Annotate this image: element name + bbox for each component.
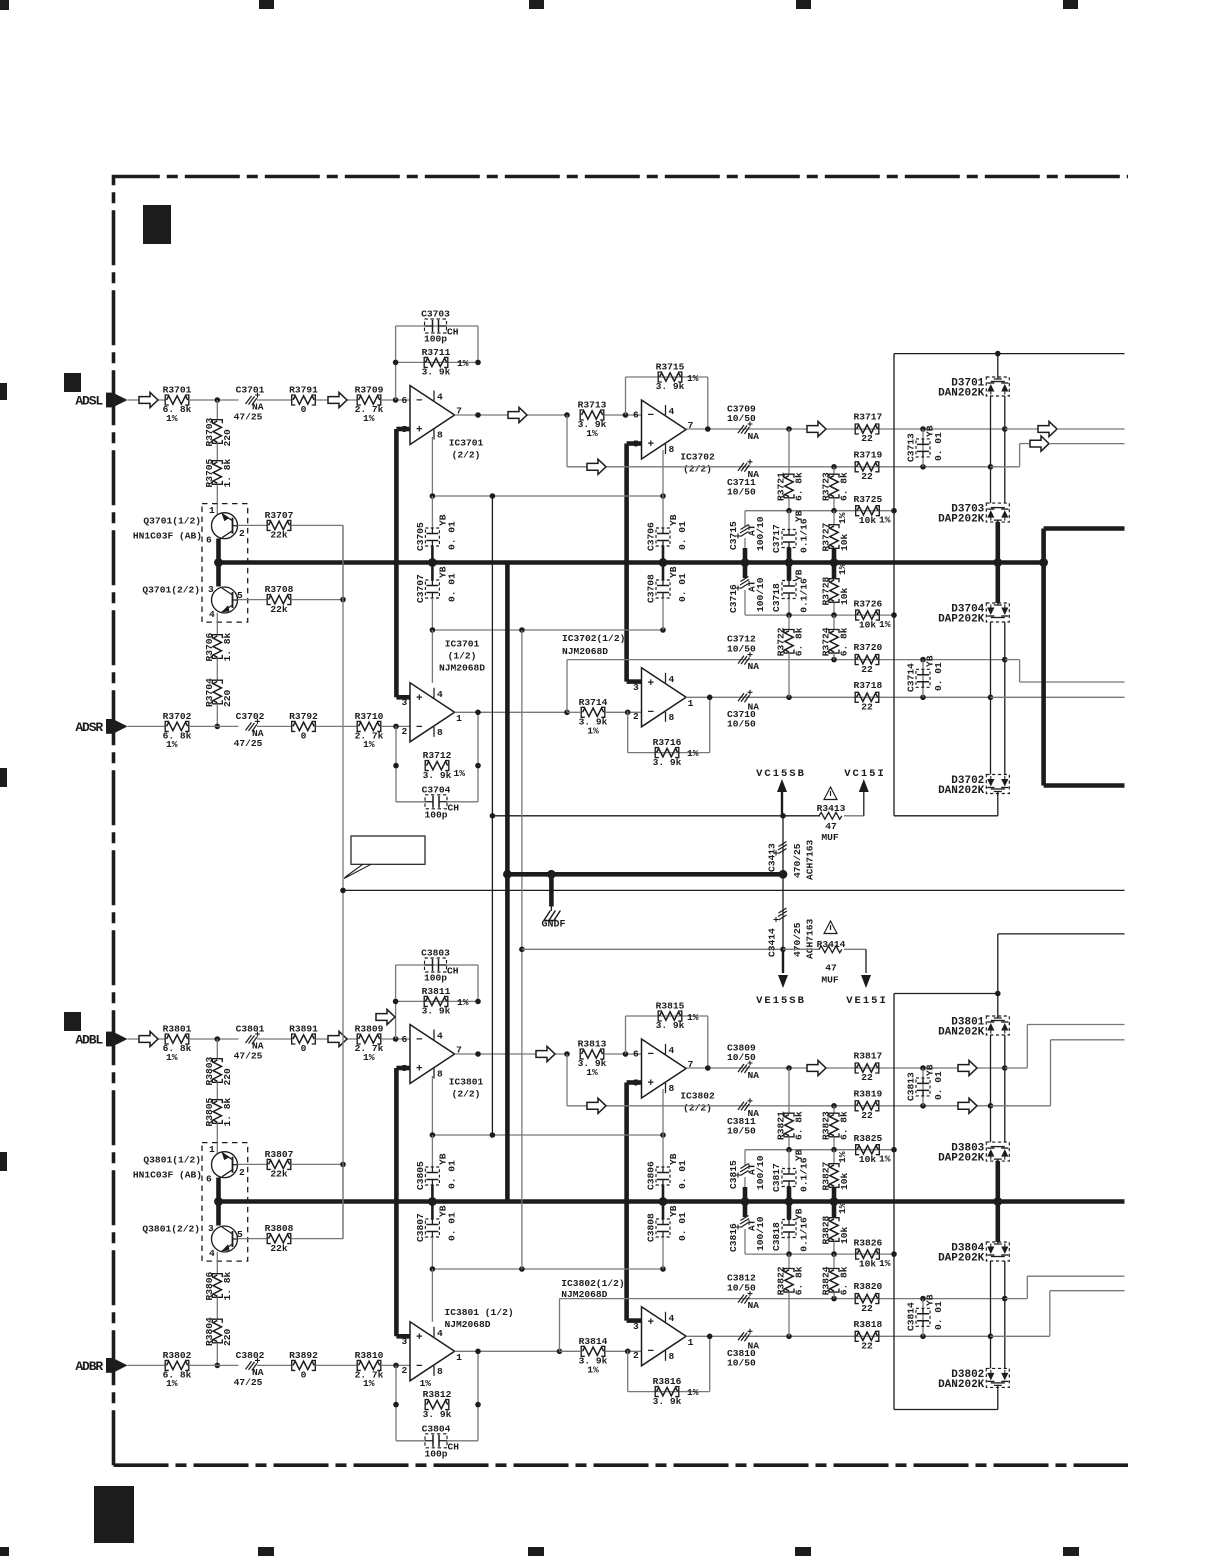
wire	[216, 1083, 218, 1100]
signal arrow row2 output (bottom)	[958, 1098, 977, 1113]
net VC15I arrow	[844, 815, 864, 817]
registration mark bottom 1	[0, 1547, 9, 1556]
svg-text:R3718: R3718	[854, 680, 883, 691]
wire corner to vertical rail	[342, 525, 344, 599]
svg-text:6. 8k: 6. 8k	[839, 627, 850, 656]
svg-text:C3818: C3818	[771, 1222, 782, 1251]
svg-text:1%: 1%	[587, 1364, 599, 1375]
svg-text:C3702: C3702	[236, 711, 265, 722]
svg-text:1%: 1%	[879, 1258, 891, 1269]
node R3708 rail	[340, 597, 346, 603]
thick vertical x=507.4 between buses	[505, 563, 510, 1202]
capacitor C3817 0.1/16 YB	[788, 1150, 790, 1169]
capacitor C3714 0.01 YB	[922, 660, 924, 698]
svg-text:MUF: MUF	[821, 975, 839, 986]
svg-text:3: 3	[208, 584, 214, 595]
svg-text:47/25: 47/25	[234, 1377, 263, 1388]
svg-text:4: 4	[669, 1313, 675, 1324]
wire to pin6	[604, 1053, 642, 1055]
resistor R3806 1.8k vertical	[213, 1275, 221, 1296]
svg-text:470/25: 470/25	[792, 843, 803, 878]
svg-text:C3808: C3808	[646, 1213, 657, 1242]
signal arrow	[508, 407, 527, 422]
svg-text:1. 8k: 1. 8k	[222, 632, 233, 661]
svg-text:R3727: R3727	[821, 522, 832, 551]
svg-text:3. 9k: 3. 9k	[653, 757, 682, 768]
svg-text:IC3801 (1/2): IC3801 (1/2)	[445, 1307, 514, 1318]
resistor R3704 220 vertical	[213, 682, 221, 703]
wire row1 output jog up to edge (bottom)	[1005, 1067, 1028, 1069]
svg-text:+: +	[648, 1317, 655, 1329]
svg-text:10/50: 10/50	[727, 486, 756, 497]
svg-text:2: 2	[239, 1167, 245, 1178]
svg-text:HN1C03F (AB): HN1C03F (AB)	[133, 1170, 202, 1181]
wire diode col lower	[990, 1261, 992, 1368]
svg-text:4: 4	[437, 689, 443, 700]
svg-text:R3728: R3728	[821, 576, 832, 605]
wire pin8 rail upper	[431, 1076, 433, 1135]
svg-text:47/25: 47/25	[234, 738, 263, 749]
resistor R3823 6.8k vertical	[833, 1106, 835, 1113]
svg-text:10k: 10k	[839, 587, 850, 605]
wire row3	[566, 660, 568, 713]
wire row3	[559, 1299, 561, 1352]
svg-text:47/25: 47/25	[234, 412, 263, 423]
wire diode block left rail	[893, 354, 895, 816]
svg-text:10k: 10k	[839, 533, 850, 551]
svg-text:8: 8	[437, 430, 443, 441]
svg-text:R3819: R3819	[854, 1088, 883, 1099]
svg-text:C3807: C3807	[415, 1213, 426, 1242]
svg-text:1%: 1%	[687, 1012, 699, 1023]
svg-text:3: 3	[633, 682, 639, 693]
op-amp IC3701(2/2)	[410, 386, 455, 445]
resistor R3808 22k	[238, 1238, 268, 1240]
wire IC3801(2/2) output	[455, 1053, 567, 1055]
resistor R3824 6.8k vertical	[833, 1254, 835, 1268]
svg-text:6: 6	[402, 395, 408, 406]
thick wire into IC3702(2/2) pin5	[627, 441, 642, 446]
svg-text:MUF: MUF	[821, 832, 839, 843]
svg-text:+: +	[416, 693, 423, 705]
svg-text:R3808: R3808	[265, 1223, 294, 1234]
svg-text:−: −	[648, 410, 655, 422]
registration mark top 2	[259, 0, 274, 9]
svg-text:1%: 1%	[166, 413, 178, 424]
node output branch	[564, 412, 570, 418]
svg-text:NA: NA	[748, 661, 760, 672]
resistor R3703 220 vertical	[216, 400, 218, 420]
svg-text:0.1/16: 0.1/16	[799, 518, 810, 553]
node output branch	[564, 1051, 570, 1057]
capacitor C3811 10/50 NA on row2	[738, 1102, 749, 1111]
svg-text:R3715: R3715	[656, 362, 685, 373]
wire VE15 row to R3414	[783, 948, 820, 950]
wire pin8 rail lower	[432, 629, 663, 631]
svg-text:6: 6	[206, 535, 212, 546]
svg-text:0. 01: 0. 01	[933, 1071, 944, 1100]
registration mark left edge ADSL	[64, 373, 81, 392]
svg-text:IC3802: IC3802	[680, 1091, 715, 1102]
svg-text:(2/2): (2/2)	[452, 450, 481, 461]
svg-text:8: 8	[669, 444, 675, 455]
registration mark top 3	[529, 0, 544, 9]
svg-text:NA: NA	[748, 1070, 760, 1081]
svg-text:1%: 1%	[837, 563, 848, 575]
svg-text:1%: 1%	[837, 1202, 848, 1214]
registration mark left edge x0 y1155	[0, 1152, 7, 1171]
registration mark bottom 2	[258, 1547, 274, 1556]
registration mark left edge x0 y385	[0, 383, 7, 400]
wire to pin6	[604, 414, 642, 416]
node IC3701(2/2) pin6	[393, 397, 399, 403]
feedback network IC3801(2/2)	[395, 965, 397, 1039]
capacitor C3706 0.01 YB	[662, 450, 664, 496]
svg-text:100p: 100p	[424, 973, 447, 984]
svg-text:R3791: R3791	[289, 385, 318, 396]
svg-text:220: 220	[222, 1068, 233, 1086]
svg-text:0. 01: 0. 01	[447, 1160, 458, 1189]
svg-text:R3712: R3712	[423, 750, 452, 761]
thick ground bus GNDF y=874.3	[507, 872, 783, 877]
svg-text:1%: 1%	[587, 725, 599, 736]
svg-text:R3720: R3720	[854, 642, 883, 653]
svg-text:+: +	[648, 678, 655, 690]
thick wire Q emitter to bus	[216, 539, 221, 587]
svg-text:100/10: 100/10	[755, 1155, 766, 1190]
svg-text:R3710: R3710	[355, 711, 384, 722]
diode D3803 DAP202K	[986, 1142, 1009, 1161]
svg-text:+: +	[648, 1078, 655, 1090]
svg-text:R3820: R3820	[854, 1281, 883, 1292]
svg-text:0. 01: 0. 01	[933, 662, 944, 691]
svg-text:R3824: R3824	[821, 1266, 832, 1295]
svg-text:0: 0	[301, 1043, 307, 1054]
node IC3802(1/2) pin2	[625, 1349, 631, 1355]
capacitor C3809 10/50 NA on row1	[738, 1064, 749, 1073]
wire IC3801(1/2) output	[455, 1350, 560, 1352]
capacitor C3808 0.01 YB	[662, 1202, 665, 1220]
node row4 R-x22	[786, 1334, 792, 1340]
svg-text:6: 6	[633, 1049, 639, 1060]
svg-text:1: 1	[456, 1352, 462, 1363]
svg-text:0. 01: 0. 01	[447, 573, 458, 602]
svg-text:C3713: C3713	[906, 433, 917, 462]
svg-text:10/50: 10/50	[727, 1283, 756, 1294]
resistor R3721 6.8k vertical	[788, 429, 790, 474]
wire ADBR row	[128, 1364, 166, 1366]
svg-text:VC15SB: VC15SB	[756, 768, 806, 780]
op-amp IC3702(1/2)	[642, 668, 687, 727]
svg-text:10/50: 10/50	[727, 644, 756, 655]
svg-text:R3826: R3826	[854, 1238, 883, 1249]
wire corner to vertical rail	[342, 1164, 344, 1238]
svg-text:470/25: 470/25	[792, 922, 803, 957]
op-amp IC3802(1/2)	[642, 1307, 687, 1366]
svg-text:R3717: R3717	[854, 412, 883, 423]
wire Q2 base chain down	[216, 613, 218, 635]
node row4 R-x22	[786, 695, 792, 701]
signal arrow	[328, 1031, 347, 1046]
wire vertical x=343 rail	[342, 525, 344, 1238]
svg-text:ADBL: ADBL	[75, 1033, 103, 1048]
svg-text:C3806: C3806	[646, 1161, 657, 1190]
svg-text:4: 4	[437, 392, 443, 403]
svg-text:+: +	[648, 439, 655, 451]
svg-text:R3811: R3811	[422, 986, 451, 997]
svg-text:DAP202K: DAP202K	[938, 1153, 985, 1165]
svg-text:10k: 10k	[859, 619, 877, 630]
registration mark top 4	[796, 0, 811, 9]
svg-text:1%: 1%	[879, 619, 891, 630]
svg-text:1%: 1%	[363, 1378, 375, 1389]
node x343 y890	[340, 888, 346, 894]
net VC15SB arrow	[777, 779, 787, 792]
svg-text:10/50: 10/50	[727, 1125, 756, 1136]
thick wire into IC3701(2/2) pin5	[396, 427, 410, 432]
svg-text:CH: CH	[447, 327, 459, 338]
svg-text:IC3702: IC3702	[680, 452, 715, 463]
capacitor C3818 0.1/16 YB	[787, 1202, 792, 1220]
node row1 diode col	[1002, 426, 1008, 432]
svg-text:1%: 1%	[586, 1067, 598, 1078]
node IC3801(2/2) pin6	[393, 1036, 399, 1042]
svg-text:3. 9k: 3. 9k	[422, 1006, 451, 1017]
svg-text:22: 22	[861, 702, 873, 713]
resistor R3728 10k vertical	[832, 563, 837, 579]
svg-text:VE15SB: VE15SB	[756, 995, 806, 1007]
svg-text:CH: CH	[447, 966, 459, 977]
svg-text:1%: 1%	[586, 428, 598, 439]
svg-text:R3707: R3707	[265, 510, 294, 521]
node row3 R-x24	[831, 657, 837, 663]
svg-text:C3813: C3813	[906, 1072, 917, 1101]
svg-text:1%: 1%	[457, 997, 469, 1008]
svg-text:1%: 1%	[363, 1052, 375, 1063]
svg-text:6. 8k: 6. 8k	[794, 1266, 805, 1295]
capacitor C3705 0.01 YB	[431, 496, 433, 528]
svg-text:220: 220	[222, 429, 233, 447]
thick wire into IC3702(1/2) pin3	[627, 679, 642, 684]
svg-text:C3414: C3414	[767, 928, 778, 957]
capacitor C3806 0.01 YB	[662, 1089, 664, 1135]
wire	[257, 1038, 292, 1040]
resistor R3706 1.8k vertical	[213, 636, 221, 657]
svg-text:R3726: R3726	[854, 599, 883, 610]
wire ADSL row	[128, 399, 166, 401]
wire row2 from output branch	[566, 415, 568, 467]
signal arrow	[328, 392, 347, 407]
thick wire bus to D3804	[995, 1202, 1000, 1243]
wire D3702 bottom rail	[997, 794, 999, 816]
svg-text:R3813: R3813	[578, 1039, 607, 1050]
svg-text:DAN202K: DAN202K	[938, 785, 985, 797]
svg-text:3: 3	[633, 1321, 639, 1332]
svg-text:DAP202K: DAP202K	[938, 514, 985, 526]
svg-text:C3802: C3802	[236, 1350, 265, 1361]
thick wire into IC3802(1/2) pin3	[627, 1318, 642, 1323]
wire VE15 row y=949.3	[522, 948, 783, 950]
svg-text:100/10: 100/10	[755, 516, 766, 551]
registration mark bottom 5	[1063, 1547, 1079, 1556]
svg-text:R3706: R3706	[204, 632, 215, 661]
diode D3701 DAN202K	[986, 377, 1009, 396]
wire IC3701(2/2) output	[455, 414, 567, 416]
wire junction row lower	[745, 614, 894, 616]
svg-text:R3711: R3711	[422, 347, 451, 358]
svg-text:Q3701(1/2): Q3701(1/2)	[143, 516, 201, 527]
svg-text:Q3801(1/2): Q3801(1/2)	[143, 1155, 201, 1166]
svg-text:3. 9k: 3. 9k	[422, 367, 451, 378]
signal arrow into feedback rail (bottom half only)	[376, 1009, 395, 1024]
node row1 C-col	[920, 426, 926, 432]
svg-text:−: −	[416, 1035, 423, 1047]
svg-text:10k: 10k	[859, 515, 877, 526]
wire D3701 top feed	[997, 354, 999, 377]
resistor R3727 10k vertical	[833, 511, 835, 525]
svg-text:+: +	[416, 1064, 423, 1076]
capacitor C3704 100p CH	[396, 801, 425, 803]
signal arrow after ADSL	[139, 392, 158, 407]
svg-text:−: −	[416, 722, 423, 734]
registration mark bottom 4	[795, 1547, 811, 1556]
signal arrow after ADBL	[139, 1031, 158, 1046]
svg-text:NA: NA	[748, 1300, 760, 1311]
svg-text:8: 8	[437, 727, 443, 738]
svg-text:NJM2068D: NJM2068D	[562, 646, 608, 657]
wire	[316, 399, 358, 401]
wire to op-amp pin2	[381, 725, 410, 727]
svg-text:R3828: R3828	[821, 1215, 832, 1244]
wire diode col lower	[990, 622, 992, 775]
svg-text:C3708: C3708	[646, 574, 657, 603]
node feedback left	[393, 360, 399, 366]
svg-text:C3701: C3701	[236, 385, 265, 396]
ground symbol GNDF	[549, 874, 554, 906]
wire row2 from output branch	[566, 1054, 568, 1106]
svg-text:6. 8k: 6. 8k	[839, 1111, 850, 1140]
capacitor C3707 0.01 YB	[431, 563, 434, 581]
wire row1 IC3702(2/2) output	[686, 428, 1005, 430]
svg-text:CH: CH	[448, 802, 460, 813]
wire IC3802(1/2) output row4	[686, 1335, 990, 1337]
svg-text:C3803: C3803	[421, 948, 450, 959]
svg-text:R3815: R3815	[656, 1001, 685, 1012]
svg-text:100p: 100p	[424, 809, 447, 820]
svg-text:100p: 100p	[424, 1448, 447, 1459]
svg-text:0: 0	[301, 404, 307, 415]
capacitor C3814 0.01 YB	[922, 1299, 924, 1337]
svg-text:0. 01: 0. 01	[677, 521, 688, 550]
svg-text:4: 4	[669, 406, 675, 417]
svg-text:3. 9k: 3. 9k	[656, 1020, 685, 1031]
wire D3801 top feed	[997, 934, 999, 1017]
wire rail to IC3701(1/2) pin4	[431, 630, 433, 683]
node VC15 row	[780, 813, 786, 819]
svg-text:22k: 22k	[270, 604, 288, 615]
svg-text:R3703: R3703	[204, 417, 215, 446]
svg-text:6: 6	[633, 410, 639, 421]
node row3 diode col	[1002, 1296, 1008, 1302]
svg-text:R3723: R3723	[821, 472, 832, 501]
node output to R-x14	[564, 710, 570, 716]
node row3 R-x24	[831, 1296, 837, 1302]
wire ADSR row	[128, 725, 166, 727]
node x521.9 y949.3	[519, 947, 525, 953]
wire	[316, 725, 358, 727]
resistor R3707 22k	[238, 524, 268, 526]
svg-text:1%: 1%	[837, 512, 848, 524]
resistor R3821 6.8k vertical	[788, 1068, 790, 1113]
wire long row y=890	[343, 889, 1125, 891]
wire row4 jog up to edge (bottom)	[991, 1335, 1050, 1337]
node row2 R-x23	[831, 1103, 837, 1109]
resistor R3805 1.8k vertical	[213, 1101, 221, 1122]
wire	[189, 725, 239, 727]
svg-text:HN1C03F (AB): HN1C03F (AB)	[133, 531, 202, 542]
registration mark top 5	[1063, 0, 1078, 9]
svg-text:1%: 1%	[687, 748, 699, 759]
wire	[257, 725, 292, 727]
wire Q2 base chain down	[216, 1252, 218, 1274]
wire	[189, 1038, 239, 1040]
svg-text:DAP202K: DAP202K	[938, 614, 985, 626]
svg-text:DAN202K: DAN202K	[938, 1027, 985, 1039]
svg-text:R3714: R3714	[579, 697, 608, 708]
node feedback right	[475, 999, 481, 1005]
wire row2 output jog up to edge	[991, 466, 1020, 468]
svg-text:R3702: R3702	[163, 711, 192, 722]
node row4 C-col	[920, 1334, 926, 1340]
signal arrow row2	[587, 459, 606, 474]
node ADSR branch	[215, 724, 221, 730]
svg-text:R3414: R3414	[817, 939, 846, 950]
resistor R3723 6.8k vertical	[833, 467, 835, 474]
film mark bottom-left	[94, 1486, 134, 1543]
wire	[189, 1364, 239, 1366]
node row4 C-col	[920, 695, 926, 701]
svg-text:(2/2): (2/2)	[452, 1089, 481, 1100]
node output to R-x14	[557, 1349, 563, 1355]
wire junction row upper	[745, 1149, 894, 1151]
wire to op-amp pin6	[381, 399, 410, 401]
node ADSL branch	[215, 397, 221, 403]
svg-text:8: 8	[437, 1366, 443, 1377]
svg-text:−: −	[416, 1361, 423, 1373]
svg-text:DAP202K: DAP202K	[938, 1253, 985, 1265]
wire row1 output to edge	[1005, 428, 1038, 430]
wire	[216, 444, 218, 461]
svg-text:IC3701: IC3701	[445, 639, 480, 650]
wire to transistor	[216, 1124, 218, 1154]
svg-text:4: 4	[669, 1045, 675, 1056]
thick wire into IC3701(1/2) pin3	[396, 695, 410, 700]
transistor pair dashed box	[202, 1143, 248, 1262]
svg-text:NA: NA	[748, 431, 760, 442]
node row4 diode col	[988, 1334, 994, 1340]
svg-text:1. 8k: 1. 8k	[222, 458, 233, 487]
svg-text:DAN202K: DAN202K	[938, 1379, 985, 1391]
svg-text:Q3701(2/2): Q3701(2/2)	[142, 585, 200, 596]
svg-text:47: 47	[825, 821, 837, 832]
node row3 C-col	[920, 1296, 926, 1302]
capacitor C3414 470/25 ACH7163	[782, 874, 784, 949]
svg-text:+: +	[416, 1332, 423, 1344]
thick frame top right	[1044, 526, 1125, 531]
svg-text:0. 01: 0. 01	[933, 432, 944, 461]
wire ADBL row	[128, 1038, 166, 1040]
node row2 C-col	[920, 464, 926, 470]
